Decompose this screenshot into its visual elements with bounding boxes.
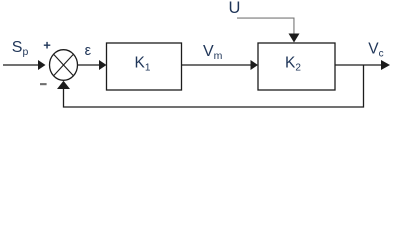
svg-text:U: U xyxy=(229,0,241,17)
svg-text:+: + xyxy=(43,38,51,53)
svg-text:ε: ε xyxy=(85,43,92,59)
